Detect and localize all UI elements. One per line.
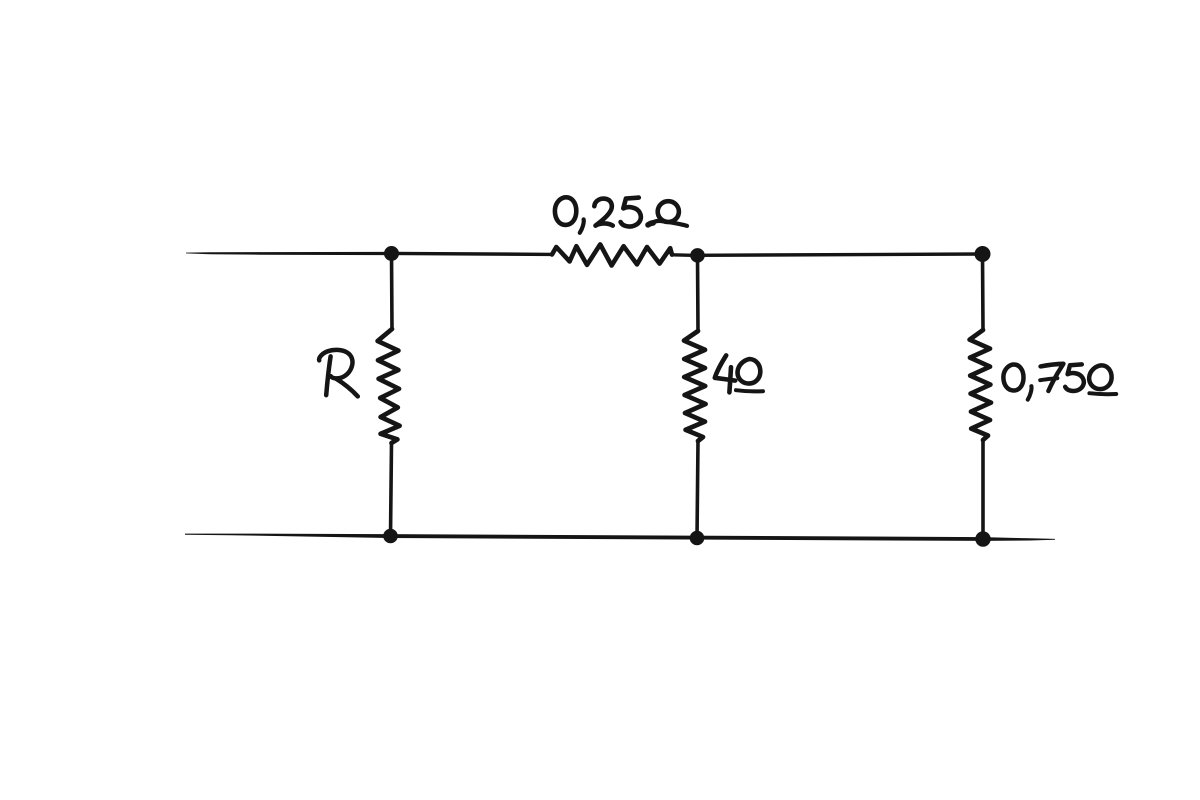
label "0,75 Ω" with underline [1003, 364, 1116, 400]
wire right branch upper lead [981, 254, 985, 330]
node top junction A [384, 246, 399, 261]
label "R" [319, 350, 358, 397]
label "4 Ω" with underline [715, 355, 763, 392]
node bottom junction B [690, 531, 705, 546]
wire middle branch lower lead [697, 441, 698, 538]
node bottom junction C [975, 531, 990, 546]
wire left branch upper lead [390, 254, 394, 330]
node bottom junction A [383, 529, 398, 544]
resistor 0,25 ohm series [552, 244, 672, 265]
resistor 4 ohm vertical zigzag [684, 331, 706, 441]
node top junction C [975, 246, 991, 262]
node top junction B [690, 248, 705, 263]
wire middle branch upper lead [696, 255, 700, 331]
wire left branch lower lead [391, 443, 392, 536]
wire right branch lower lead [981, 440, 985, 539]
wire top middle segment [391, 253, 552, 254]
resistor 0,75 ohm vertical zigzag [970, 330, 991, 440]
wire top-right segment [697, 254, 982, 255]
wire top segment after series resistor [672, 253, 697, 257]
label "0,25 Ω" [555, 197, 687, 233]
wire top-left segment [186, 252, 391, 255]
wire bottom rail [185, 534, 1055, 541]
resistor R vertical zigzag [378, 329, 400, 443]
